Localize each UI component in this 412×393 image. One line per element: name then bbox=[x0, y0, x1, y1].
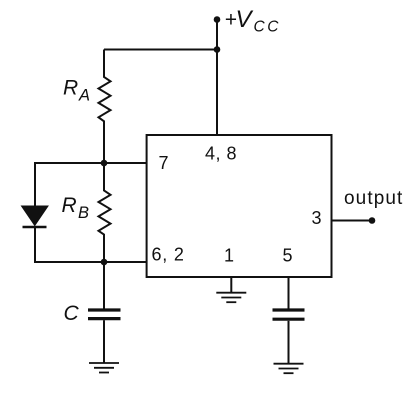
wire pin 5 to decoupling capacitor bbox=[288, 277, 290, 309]
wire C to ground bbox=[103, 320, 105, 363]
ground symbol below C2 bbox=[274, 364, 304, 374]
ground symbol below C bbox=[89, 363, 119, 373]
svg-text:4, 8: 4, 8 bbox=[205, 144, 237, 164]
capacitor C bottom plate bbox=[88, 317, 121, 320]
svg-text:R: R bbox=[63, 77, 78, 100]
resistor RA bbox=[99, 50, 111, 164]
svg-text:3: 3 bbox=[312, 208, 322, 228]
svg-text:C: C bbox=[64, 302, 80, 325]
wire pin 1 to ground bbox=[230, 277, 232, 293]
node B junction dot (RB/C/pin 6,2) bbox=[101, 259, 108, 266]
wire node B to capacitor C bbox=[103, 262, 105, 309]
wire C2 to ground bbox=[288, 321, 290, 364]
wire pin 3 to output bbox=[332, 220, 373, 222]
wire VCC vertical to pin 4,8 bbox=[216, 20, 218, 136]
diode D1 cathode bar bbox=[23, 226, 47, 228]
junction dot VCC branch bbox=[214, 46, 221, 53]
output terminal dot bbox=[369, 217, 376, 224]
power terminal +VCC dot bbox=[214, 16, 221, 23]
wire node A to pin 7 bbox=[34, 162, 147, 164]
wire VCC to RA top bbox=[104, 49, 217, 51]
op-amp/timer IC U1 box bbox=[147, 135, 332, 277]
svg-text:B: B bbox=[78, 204, 89, 222]
label RA bbox=[63, 77, 90, 105]
diode D1 branch wire bottom bbox=[34, 227, 36, 263]
svg-text:CC: CC bbox=[254, 19, 282, 36]
svg-text:1: 1 bbox=[224, 246, 234, 266]
node A junction dot (RA/RB/pin7) bbox=[101, 160, 108, 167]
ground symbol pin 1 bbox=[216, 293, 246, 303]
capacitor C top plate bbox=[88, 308, 121, 311]
capacitor C2 top plate bbox=[273, 308, 305, 311]
capacitor C2 bottom plate bbox=[273, 318, 305, 321]
wire node B to pin 6,2 bbox=[34, 261, 147, 263]
svg-text:output: output bbox=[344, 188, 403, 209]
label RB bbox=[62, 194, 90, 222]
svg-text:A: A bbox=[78, 87, 90, 105]
svg-text:V: V bbox=[236, 6, 254, 33]
svg-text:R: R bbox=[62, 194, 77, 217]
label +VCC bbox=[225, 6, 282, 36]
svg-text:6, 2: 6, 2 bbox=[152, 245, 185, 265]
diode D1 triangle bbox=[22, 206, 49, 226]
diode D1 branch wire top bbox=[34, 162, 36, 207]
svg-text:5: 5 bbox=[283, 246, 293, 266]
resistor RB bbox=[99, 163, 111, 262]
svg-text:7: 7 bbox=[159, 153, 169, 173]
